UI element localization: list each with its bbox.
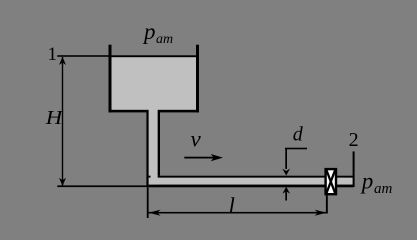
svg-text:v: v	[191, 126, 202, 151]
velocity arrow line	[184, 157, 214, 159]
valve cross line 2	[326, 170, 335, 194]
vertical pipe right wall	[158, 112, 160, 176]
tank left wall	[109, 45, 112, 113]
svg-text:am: am	[156, 32, 173, 47]
tank water fill	[112, 56, 197, 111]
tank bottom left segment	[109, 110, 149, 113]
svg-text:l: l	[229, 193, 235, 218]
svg-text:H: H	[45, 107, 64, 129]
water surface line	[109, 55, 200, 57]
section 2 marker line	[353, 151, 355, 187]
svg-text:p: p	[360, 169, 374, 194]
valve body	[326, 169, 336, 194]
vertical pipe fluid fill	[149, 110, 158, 185]
svg-text:d: d	[293, 123, 304, 145]
svg-text:p: p	[142, 19, 156, 44]
tank bottom right segment	[158, 110, 199, 113]
valve cross line 1	[326, 170, 335, 194]
d leader tick	[285, 148, 307, 150]
H dimension line	[62, 57, 63, 186]
svg-text:1: 1	[48, 44, 58, 65]
d leader vertical upper	[285, 148, 287, 169]
l left arrowhead	[149, 210, 161, 216]
elbow stub on vertical pipe left wall	[149, 176, 151, 178]
svg-text:2: 2	[349, 129, 359, 151]
l dimension left extension line	[147, 188, 149, 219]
velocity arrowhead	[211, 154, 223, 161]
node 1 leader line	[57, 55, 109, 57]
horizontal pipe top wall	[158, 176, 354, 178]
vertical pipe left wall	[146, 112, 148, 187]
horizontal pipe bottom wall	[149, 185, 354, 188]
H top arrowhead	[59, 57, 66, 65]
tank right wall	[196, 45, 199, 113]
l dimension right extension line	[326, 196, 328, 214]
d lower arrowhead (up)	[282, 187, 290, 194]
horizontal pipe fluid fill	[149, 178, 354, 185]
d leader vertical lower	[285, 192, 287, 201]
baseline from H to pipe	[57, 185, 148, 187]
l right arrowhead	[315, 210, 327, 216]
d upper arrowhead (down)	[282, 169, 290, 176]
svg-text:am: am	[374, 181, 393, 197]
l dimension line	[149, 212, 327, 214]
H bottom arrowhead	[59, 178, 66, 186]
